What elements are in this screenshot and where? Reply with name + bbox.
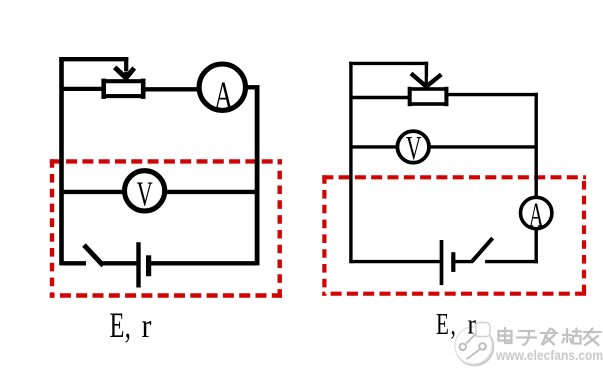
wire: rheostat to ammeter [145, 87, 202, 91]
red dashed box (right black-box E,r) [322, 175, 586, 296]
watermark logo circle [455, 323, 493, 366]
wire: top horizontal to rheostat slider [349, 62, 428, 65]
wire: left bus to rheostat (right) [351, 96, 408, 99]
rheostat slider arrow [115, 67, 135, 79]
svg-text:E,: E, [436, 306, 456, 341]
wire: bottom left segment to switch [62, 261, 87, 265]
ammeter A2 (right circuit) [521, 197, 552, 228]
wire: right vertical bus (left circuit) [255, 85, 260, 265]
voltmeter V2 (right circuit) [397, 131, 429, 163]
battery E2 short plate [451, 252, 455, 272]
wire: slider drop segment [124, 57, 128, 71]
svg-text:V: V [406, 130, 422, 167]
wire: switch to ammeter (right) [485, 260, 538, 263]
wire: slider drop segment [425, 62, 428, 76]
red dashed box (left black-box E,r) [50, 159, 282, 298]
rheostat slider arrow (right) [411, 73, 441, 88]
watermark text 电子发烧友 (approximated strokes) [499, 328, 601, 345]
svg-text:r: r [142, 306, 152, 344]
svg-text:www.elecfans.com: www.elecfans.com [495, 347, 603, 363]
wire: voltmeter branch (left circuit) [62, 190, 258, 194]
resistor R (rheostat box, right) [410, 87, 447, 106]
battery E2 long plate [440, 240, 444, 285]
wire: voltmeter branch (right circuit) [351, 145, 536, 148]
wire: battery to right bus [151, 261, 258, 265]
wire: left vertical bus (left circuit) [59, 57, 64, 265]
wire: right vertical bus upper (right circuit) [535, 93, 538, 199]
wire: ammeter down to bottom wire (right) [535, 228, 538, 263]
switch S2 blade (right circuit) [472, 238, 493, 262]
wire: battery to switch (right) [455, 260, 473, 263]
wire: top horizontal to rheostat slider [59, 57, 128, 61]
svg-text:V: V [137, 176, 153, 214]
wire: left vertical bus (right circuit) [349, 62, 352, 264]
resistor R (rheostat box, left) [104, 79, 144, 99]
wire: ammeter to right bus [243, 85, 259, 89]
svg-text:r: r [468, 308, 476, 340]
wire: left bus to rheostat [62, 87, 103, 91]
switch S1 blade (left circuit) [84, 245, 103, 266]
battery E1 short plate [146, 255, 151, 276]
svg-text:E,: E, [110, 306, 131, 346]
svg-text:A: A [214, 74, 233, 117]
ammeter A1 (left circuit) [199, 64, 245, 110]
wire: rheostat to right bus (right) [448, 93, 538, 96]
battery E1 long plate [136, 242, 140, 287]
wire: bottom left segment (right circuit) [351, 260, 440, 263]
voltmeter V1 (left circuit) [125, 171, 165, 211]
wire: switch to battery [102, 261, 137, 265]
